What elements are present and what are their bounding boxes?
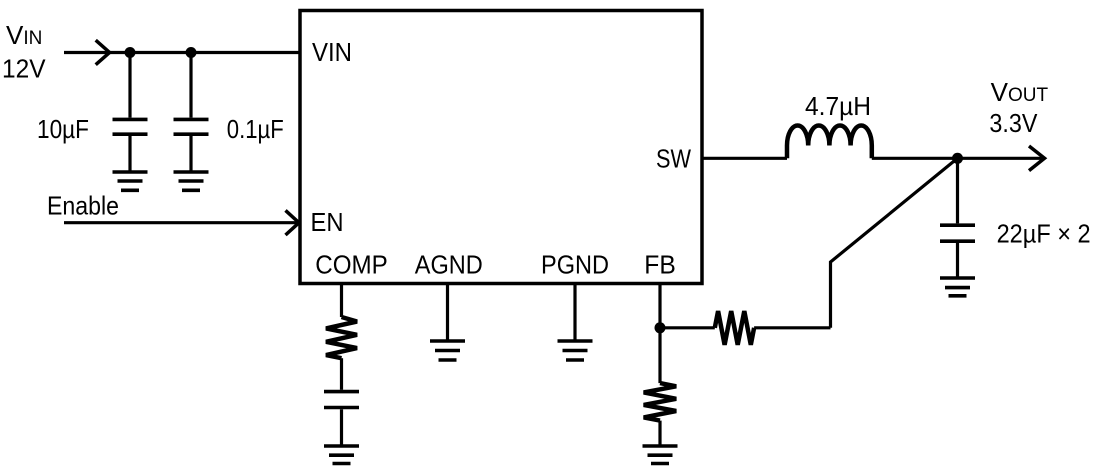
capacitor C4 COMP xyxy=(324,392,359,408)
svg-text:SW: SW xyxy=(656,144,691,174)
wire PGND pin xyxy=(573,285,576,341)
ground AGND xyxy=(430,341,465,360)
resistor R3 COMP xyxy=(326,317,357,358)
wire feedback diagonal xyxy=(831,158,958,327)
svg-text:Enable: Enable xyxy=(47,190,119,220)
wire Enable xyxy=(64,221,298,224)
wire COMP pin xyxy=(340,285,343,317)
ground PGND xyxy=(558,341,593,360)
svg-text:VIN: VIN xyxy=(6,20,42,50)
wire R2 to ground xyxy=(658,421,661,446)
capacitor C3 22uF xyxy=(940,158,975,278)
wire L1 to output node xyxy=(872,157,958,160)
ground C3 xyxy=(940,278,975,296)
inductor L1 xyxy=(787,125,872,158)
wire FB to R1 xyxy=(660,326,715,329)
wire R1 to corner xyxy=(754,326,830,329)
svg-text:COMP: COMP xyxy=(315,250,388,280)
svg-text:AGND: AGND xyxy=(415,250,483,280)
ground COMP xyxy=(324,446,359,464)
wire C4 to ground xyxy=(340,409,343,446)
resistor R2 xyxy=(644,383,677,421)
svg-text:VOUT: VOUT xyxy=(991,77,1049,107)
wire AGND pin xyxy=(446,285,449,341)
wire VOUT xyxy=(958,157,1044,160)
svg-text:10µF: 10µF xyxy=(37,114,89,144)
svg-text:FB: FB xyxy=(644,250,676,280)
IC U1 xyxy=(300,11,702,284)
capacitor C1 10uF xyxy=(113,53,148,173)
arrow VOUT xyxy=(1029,146,1045,171)
svg-text:4.7µH: 4.7µH xyxy=(805,91,871,121)
svg-text:22µF × 2: 22µF × 2 xyxy=(997,219,1091,249)
svg-text:PGND: PGND xyxy=(541,250,609,280)
ground R2 xyxy=(643,446,678,464)
node junction J2 xyxy=(186,47,197,58)
wire input xyxy=(64,51,300,54)
wire SW to L1 xyxy=(702,157,787,160)
capacitor C2 0.1uF xyxy=(174,53,209,173)
resistor R1 feedback xyxy=(715,311,754,345)
arrow input xyxy=(96,40,110,64)
ground C2 xyxy=(174,172,209,190)
wire FB junction to R2 xyxy=(658,328,661,383)
node junction J1 xyxy=(125,47,136,58)
svg-text:EN: EN xyxy=(311,207,344,237)
svg-text:12V: 12V xyxy=(2,54,46,84)
svg-text:VIN: VIN xyxy=(312,37,352,67)
wire FB pin xyxy=(658,284,661,328)
svg-text:0.1µF: 0.1µF xyxy=(227,114,284,144)
wire R3 to C4 xyxy=(340,358,343,390)
ground C1 xyxy=(113,172,148,190)
arrow Enable xyxy=(286,210,300,235)
node output junction xyxy=(952,153,963,164)
node FB junction xyxy=(655,322,666,333)
svg-text:3.3V: 3.3V xyxy=(989,108,1038,138)
